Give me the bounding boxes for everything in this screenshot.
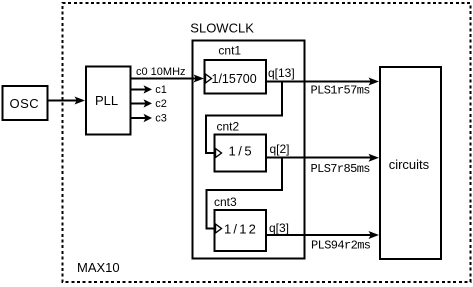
svg-text:1/12: 1/12 xyxy=(224,222,258,237)
svg-text:1/5: 1/5 xyxy=(229,144,255,159)
label 1/12 xyxy=(224,222,258,237)
svg-text:PLS7r85ms: PLS7r85ms xyxy=(311,162,371,176)
label 1/15700 xyxy=(212,72,257,86)
label PLL xyxy=(95,93,118,108)
wire q3 PLS94r2ms to circuits xyxy=(266,234,371,236)
label PLS1r57ms xyxy=(311,84,371,98)
svg-text:c0 10MHz: c0 10MHz xyxy=(136,66,186,78)
wire feedback q13 to cnt2 clock xyxy=(206,82,282,154)
arrowhead c0 into cnt1 xyxy=(194,75,205,83)
arrowhead c1 xyxy=(144,85,153,93)
wire OSC to PLL xyxy=(47,100,77,102)
label cnt1 xyxy=(218,44,241,58)
label c3 xyxy=(155,113,167,125)
label PLS94r2ms xyxy=(311,239,371,253)
svg-text:cnt2: cnt2 xyxy=(217,120,240,134)
svg-text:c3: c3 xyxy=(155,113,167,125)
label q[13] xyxy=(268,66,295,80)
wire c0 from PLL to cnt1 xyxy=(130,78,196,80)
arrowhead c2 xyxy=(144,99,153,107)
clock pin triangle cnt1 xyxy=(206,74,212,83)
block SLOWCLK xyxy=(192,41,304,259)
block cnt2 divider xyxy=(215,135,267,172)
label q[3] xyxy=(269,221,289,235)
svg-text:c2: c2 xyxy=(155,98,167,110)
label 1/5 xyxy=(229,144,255,159)
label c2 xyxy=(155,98,167,110)
svg-text:circuits: circuits xyxy=(389,157,430,172)
label circuits xyxy=(389,157,430,172)
wire c3 xyxy=(130,117,146,119)
svg-text:SLOWCLK: SLOWCLK xyxy=(190,21,254,36)
svg-text:cnt3: cnt3 xyxy=(214,195,237,209)
arrowhead q13 into circuits xyxy=(369,78,380,86)
svg-text:c1: c1 xyxy=(155,84,167,96)
block OSC xyxy=(3,86,48,120)
label cnt3 xyxy=(214,195,237,209)
svg-text:PLS1r57ms: PLS1r57ms xyxy=(311,84,371,98)
label c0 10MHz xyxy=(136,66,186,78)
block cnt3 divider xyxy=(215,210,267,251)
wire feedback q2 to cnt3 clock xyxy=(207,158,283,229)
svg-text:1/15700: 1/15700 xyxy=(212,72,257,86)
block PLL xyxy=(86,67,131,135)
label q[2] xyxy=(270,142,290,156)
svg-text:PLS94r2ms: PLS94r2ms xyxy=(311,239,371,253)
svg-text:q[3]: q[3] xyxy=(269,221,289,235)
wire c1 xyxy=(130,88,146,90)
svg-text:q[13]: q[13] xyxy=(268,66,295,80)
arrowhead q2 into circuits xyxy=(369,154,380,162)
arrowhead q3 into circuits xyxy=(369,231,380,239)
label c1 xyxy=(155,84,167,96)
wire q13 PLS1r57ms to circuits xyxy=(266,81,371,83)
label SLOWCLK xyxy=(190,21,254,36)
label PLS7r85ms xyxy=(311,162,371,176)
svg-text:q[2]: q[2] xyxy=(270,142,290,156)
svg-text:OSC: OSC xyxy=(10,96,40,111)
label OSC xyxy=(10,96,40,111)
svg-text:MAX10: MAX10 xyxy=(77,260,120,275)
block cnt1 divider xyxy=(205,60,266,94)
wire q2 PLS7r85ms to circuits xyxy=(266,157,371,159)
label MAX10 xyxy=(77,260,120,275)
arrowhead c3 xyxy=(144,114,153,122)
svg-text:PLL: PLL xyxy=(95,93,118,108)
label cnt2 xyxy=(217,120,240,134)
clock pin triangle cnt2 xyxy=(216,149,222,158)
clock pin triangle cnt3 xyxy=(216,224,222,233)
wire c2 xyxy=(130,102,146,104)
svg-text:cnt1: cnt1 xyxy=(218,44,241,58)
arrowhead into PLL xyxy=(75,97,86,105)
block circuits xyxy=(380,67,441,259)
